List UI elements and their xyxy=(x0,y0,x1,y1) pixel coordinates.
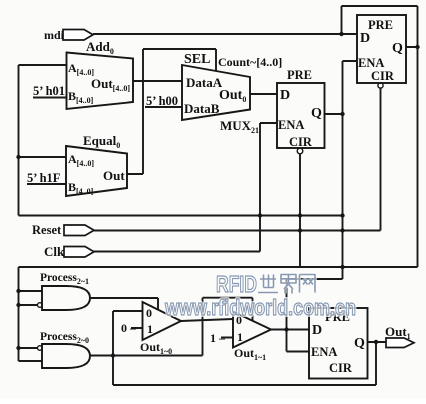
svg-text:D: D xyxy=(312,323,322,338)
svg-text:CIR: CIR xyxy=(329,361,353,375)
svg-text:Reset: Reset xyxy=(32,223,62,237)
svg-text:1: 1 xyxy=(237,330,243,344)
svg-text:www.rfidworld.com.cn: www.rfidworld.com.cn xyxy=(164,295,356,320)
svg-text:SEL: SEL xyxy=(184,52,210,67)
svg-text:D: D xyxy=(280,88,290,103)
svg-text:DataA: DataA xyxy=(186,75,223,90)
svg-text:ENA: ENA xyxy=(358,56,384,70)
svg-text:ENA: ENA xyxy=(278,118,304,132)
svg-text:PRE: PRE xyxy=(287,68,312,82)
svg-text:Q: Q xyxy=(392,41,403,56)
svg-text:ENA: ENA xyxy=(311,345,337,359)
svg-text:Q: Q xyxy=(354,336,365,351)
svg-text:CIR: CIR xyxy=(371,69,395,83)
svg-text:5’ h00: 5’ h00 xyxy=(146,94,178,108)
svg-text:0: 0 xyxy=(146,306,152,320)
svg-text:0 –: 0 – xyxy=(121,321,137,335)
svg-text:PRE: PRE xyxy=(368,18,393,32)
svg-text:Out: Out xyxy=(103,168,125,183)
svg-text:Equal0: Equal0 xyxy=(83,133,120,150)
svg-text:5’ h01: 5’ h01 xyxy=(33,84,65,98)
svg-text:1: 1 xyxy=(147,322,153,336)
svg-text:1 –: 1 – xyxy=(210,331,226,345)
svg-text:D: D xyxy=(360,31,370,46)
svg-text:5’ h1F: 5’ h1F xyxy=(27,171,61,185)
svg-text:DataB: DataB xyxy=(184,101,220,116)
svg-text:CIR: CIR xyxy=(289,135,313,149)
svg-text:Q: Q xyxy=(311,106,322,121)
svg-text:Count~[4..0]: Count~[4..0] xyxy=(218,55,282,69)
svg-text:RFID: RFID xyxy=(216,271,257,297)
svg-text:mdi: mdi xyxy=(44,28,65,42)
svg-text:Clk: Clk xyxy=(44,244,65,259)
svg-text:Add0: Add0 xyxy=(86,39,114,56)
svg-text:Out0: Out0 xyxy=(219,88,246,104)
